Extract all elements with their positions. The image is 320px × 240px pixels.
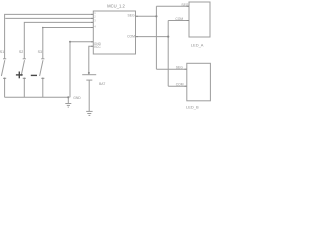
svg-text:S1: S1: [0, 50, 4, 54]
node corner S3: [42, 27, 44, 29]
IC U1 box: [93, 11, 135, 54]
svg-text:LED_B: LED_B: [186, 104, 199, 109]
svg-text:BAT: BAT: [99, 82, 105, 86]
LED_B box: [187, 63, 211, 101]
svg-text:S3: S3: [38, 50, 42, 54]
junction dots: [42, 15, 169, 98]
svg-text:MCU_1.2: MCU_1.2: [107, 3, 125, 8]
node rail-GND junction: [67, 96, 69, 98]
wire VCC pin to battery: [89, 46, 94, 74]
SEG net wires: [136, 6, 190, 69]
node COM junction: [167, 36, 169, 38]
svg-text:SEG: SEG: [181, 3, 188, 7]
plus minus marks: [16, 72, 37, 79]
pin tick IC left 1: [91, 13, 93, 15]
node GND corner: [69, 41, 71, 43]
label minus S3: [31, 74, 37, 76]
node SEG junction: [155, 15, 157, 17]
terminal S1 bottom: [4, 78, 6, 80]
pin tick IC left 2: [91, 17, 93, 19]
svg-text:SEG: SEG: [176, 66, 183, 70]
node battery top: [88, 72, 90, 74]
switch S3: [40, 59, 45, 98]
svg-text:COM: COM: [127, 35, 135, 39]
pin tick LED_A SEG: [187, 5, 189, 7]
ground symbol at rail: [65, 97, 71, 107]
wire GND pin: [70, 42, 93, 98]
pin tick IC SEG: [136, 15, 139, 17]
pin tick IC COM: [136, 36, 139, 38]
pin stubs ticks: [91, 6, 189, 86]
pin tick LED_B COM: [184, 85, 186, 87]
pin tick IC left 4: [91, 27, 93, 29]
terminal S2 bottom: [24, 78, 26, 80]
svg-text:SEG: SEG: [128, 14, 136, 18]
ground symbol under battery: [86, 111, 92, 115]
svg-text:VCC: VCC: [94, 45, 101, 49]
svg-text:S2: S2: [19, 50, 23, 54]
pin tick LED_A COM: [187, 20, 189, 22]
svg-text:COM: COM: [176, 83, 184, 87]
switch S2: [21, 59, 26, 98]
svg-text:GND: GND: [73, 96, 81, 100]
wire pin2: [5, 17, 93, 19]
pin tick IC left 3: [91, 21, 93, 23]
switch S1: [1, 59, 6, 98]
pin tick IC VCC: [91, 45, 93, 47]
svg-text:LED_A: LED_A: [191, 42, 204, 47]
ground rail: [5, 96, 69, 98]
svg-text:4: 4: [94, 25, 96, 29]
pin tick LED_B SEG: [184, 68, 186, 70]
battery BAT: [82, 75, 96, 112]
wire pin4 to S3 column: [43, 28, 94, 59]
pin tick IC GND: [91, 41, 93, 43]
wire pin1 to S1 column: [5, 14, 94, 58]
pin numbers IC left: [94, 11, 96, 29]
svg-text:2: 2: [94, 15, 96, 19]
label plus S2: [16, 74, 23, 76]
LED_A box: [189, 2, 210, 37]
wire pin3 to S2 column: [24, 22, 93, 58]
COM net wires: [136, 21, 190, 87]
svg-text:3: 3: [94, 19, 96, 23]
terminal S3 bottom: [42, 78, 44, 80]
svg-text:COM: COM: [175, 17, 183, 21]
switch terminal dots: [4, 78, 44, 80]
